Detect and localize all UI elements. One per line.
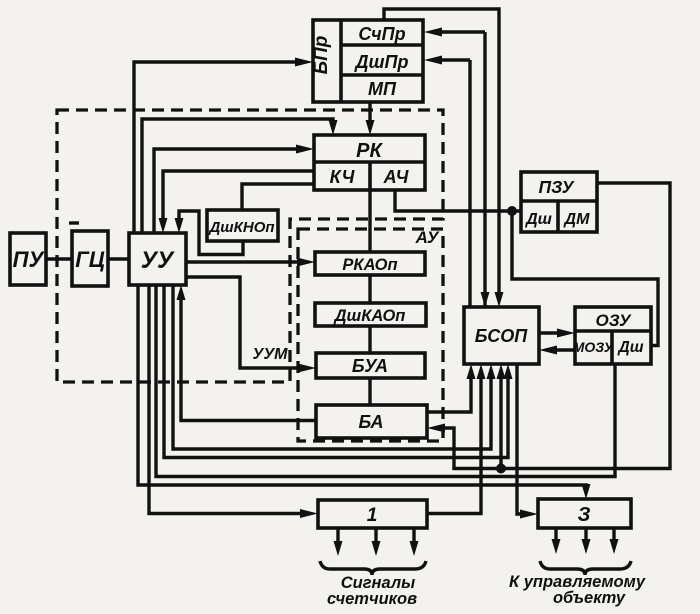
box GTs [72, 231, 108, 286]
wire UU to BSOP bus2 [164, 285, 508, 458]
wire KCh to UU [163, 171, 314, 224]
wire PZU junction to OZU [512, 211, 658, 346]
wire KCh to DshKNOp [242, 184, 314, 210]
dashed AU block boundary [298, 229, 443, 441]
wire BA to UU (feedback) [181, 294, 316, 421]
stray dash above GTs [69, 221, 79, 224]
wire BSOP to block3 [517, 364, 529, 514]
svg-text:БПр: БПр [311, 36, 332, 75]
svg-text:Дш: Дш [524, 211, 552, 228]
wire BA to BSOP [427, 371, 471, 412]
svg-text:ДшКНОп: ДшКНОп [207, 219, 274, 236]
box UU [129, 233, 186, 285]
svg-text:ПУ: ПУ [13, 247, 46, 272]
box BA [316, 405, 427, 438]
svg-text:З: З [578, 504, 591, 526]
wire UUM to BUA [186, 277, 307, 368]
wire BSOP to SchPr [433, 32, 485, 307]
svg-text:РК: РК [356, 140, 383, 162]
svg-text:ПЗУ: ПЗУ [538, 177, 574, 197]
wire BSOP to DshPr [433, 60, 470, 307]
box BUA [316, 353, 425, 378]
wire UU to OZU bus [156, 285, 615, 477]
svg-text:МП: МП [368, 79, 397, 99]
wire block1 to BSOP [427, 371, 481, 514]
block OZU compound [573, 307, 651, 364]
svg-text:ДшПр: ДшПр [354, 52, 409, 72]
svg-text:счетчиков: счетчиков [327, 590, 417, 608]
block3 output arrows [552, 528, 619, 554]
block1 output arrows [334, 528, 419, 556]
svg-text:КЧ: КЧ [330, 167, 356, 187]
svg-text:БА: БА [358, 412, 383, 432]
svg-text:ДМ: ДМ [563, 211, 591, 228]
svg-text:объекту: объекту [553, 589, 626, 607]
wire RK to RKAOp [368, 190, 371, 252]
wire UU to RKAOp [186, 260, 306, 263]
block 3 [538, 499, 631, 528]
dashed processor boundary (step polygon) [57, 110, 443, 382]
svg-text:1: 1 [367, 505, 378, 526]
svg-text:ОЗУ: ОЗУ [595, 311, 631, 330]
svg-text:Дш: Дш [617, 339, 644, 356]
svg-text:БУА: БУА [352, 356, 388, 376]
svg-text:АЧ: АЧ [383, 167, 410, 187]
box PU [10, 233, 46, 285]
wire PU-GTs [46, 257, 72, 260]
svg-text:СчПр: СчПр [358, 24, 405, 44]
brace under block3 [540, 561, 631, 575]
svg-text:АУ: АУ [415, 228, 440, 247]
svg-text:ДшКАОп: ДшКАОп [333, 307, 406, 325]
svg-text:МОЗУ: МОЗУ [573, 339, 615, 355]
wire ACh to PZU [395, 190, 521, 211]
svg-text:УУ: УУ [141, 247, 175, 274]
svg-text:РКАОп: РКАОп [342, 256, 397, 274]
wire GTs-UU [108, 257, 129, 260]
wire PZU to BA and BSOP [436, 183, 670, 469]
box RKAOp [315, 252, 425, 275]
brace under block1 [320, 561, 426, 575]
wire UU to RK top [142, 119, 333, 233]
wire MP to RK [368, 102, 371, 128]
block BPr compound [311, 20, 423, 102]
wire BUA to BA [368, 378, 371, 405]
svg-text:БСОП: БСОП [475, 326, 529, 346]
wire BPr top to BSOP [384, 9, 499, 300]
wire DshKNOp to UU [179, 211, 243, 255]
block RK compound [314, 135, 425, 190]
wire UU to BSOP bus1 [173, 285, 491, 449]
svg-text:ГЦ: ГЦ [75, 247, 105, 272]
junction dot PZU [507, 206, 517, 216]
wire UU to block1 [149, 285, 309, 514]
wire UU to block3 bus [138, 285, 586, 492]
junction dot [496, 464, 506, 474]
box BSOP [464, 307, 539, 364]
block PZU compound [521, 172, 597, 232]
block 1 [318, 500, 427, 528]
wire OZU to BSOP [548, 348, 575, 351]
wire UU to RK left [154, 149, 305, 233]
wire DshKAOp to BUA [368, 326, 371, 353]
wire RKAOp to DshKAOp [368, 275, 371, 303]
wire UU to BPr [134, 62, 304, 233]
wire BSOP to OZU [539, 331, 566, 334]
box DshKNOp [207, 210, 278, 241]
box DshKAOp [315, 303, 426, 326]
svg-text:УУМ: УУМ [253, 346, 289, 363]
